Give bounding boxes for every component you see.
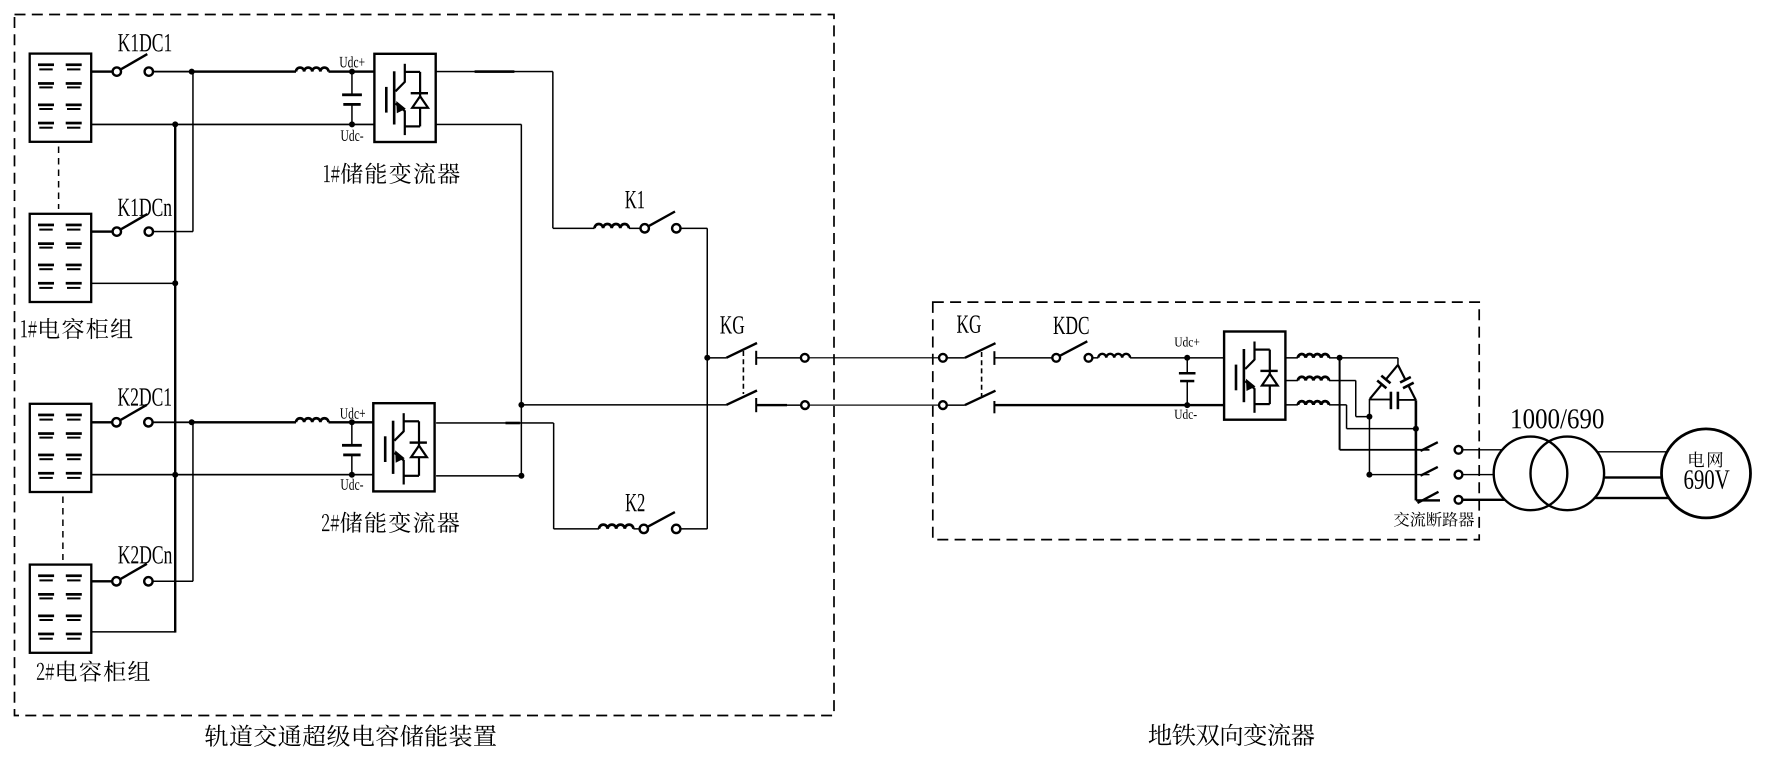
dc-link capacitor C1 bbox=[351, 72, 353, 95]
KG upper terminal bbox=[801, 354, 809, 362]
grid line 2 bbox=[1604, 476, 1662, 478]
wire bank3 to K2DC1 bbox=[91, 421, 113, 423]
negative bus wire bank3/converter2 bbox=[91, 474, 373, 476]
label 1000/690 bbox=[1512, 409, 1603, 428]
wire bank2 bottom to bus bbox=[91, 283, 175, 285]
label Udc+ U1 bbox=[340, 56, 365, 67]
dashed boundary: rail-transit supercapacitor energy storage device bbox=[15, 15, 835, 716]
wire node to L1 bbox=[192, 70, 296, 72]
pole1 feed wire bbox=[1340, 449, 1430, 451]
switch K2DC1 bbox=[112, 418, 120, 426]
Udc- node converter2 bbox=[349, 472, 355, 478]
grid 690V circle bbox=[1662, 429, 1751, 518]
KG lower pole wire bbox=[521, 404, 726, 406]
inductor LDC bbox=[1098, 354, 1130, 358]
KG gang dashed link bbox=[742, 351, 744, 394]
phase A node bbox=[1337, 355, 1343, 361]
wire K2 to vertical bbox=[680, 528, 707, 530]
dc-link capacitor C2 bbox=[351, 422, 353, 445]
pole2 feed wire bbox=[1369, 474, 1429, 475]
node delta-left/B bbox=[1366, 414, 1372, 420]
filter capacitor bottom right lead bbox=[1398, 399, 1416, 401]
delta left corner drop bbox=[1369, 399, 1371, 475]
vertical U1-/U2- link bbox=[521, 124, 523, 475]
KG lower wire to terminal bbox=[787, 404, 801, 406]
label K1 bbox=[625, 191, 644, 208]
KG2 lower blade bbox=[965, 391, 996, 405]
phase B wire to corner bbox=[1329, 380, 1356, 382]
Udc+ node converter2 bbox=[349, 419, 355, 425]
label grid voltage bbox=[1684, 470, 1729, 489]
junction negative bus / bank1 bbox=[172, 121, 178, 127]
wire node to L2 bbox=[192, 421, 296, 423]
wire K1DC1 to node bbox=[153, 71, 192, 73]
KG upper wire to terminal bbox=[756, 357, 801, 359]
filter capacitor left slant bbox=[1386, 365, 1398, 380]
label K2 bbox=[626, 494, 645, 511]
phase C wire bbox=[1285, 404, 1298, 406]
KG2 upper contact bar bbox=[993, 351, 995, 365]
dc-link capacitor C3 bbox=[1187, 358, 1189, 374]
breaker pole3 wire out bbox=[1462, 499, 1505, 501]
vertical link K1DC1-K1DCn bbox=[192, 72, 194, 232]
wire K1 to vertical bbox=[680, 228, 707, 230]
filter capacitor right slant bbox=[1398, 365, 1406, 380]
KG lower wire thick bbox=[756, 404, 787, 406]
label 2# capacitor group bbox=[37, 661, 150, 682]
phase A inductor bbox=[1298, 354, 1329, 358]
node A2 junction bbox=[189, 419, 195, 425]
wire to K2 inductor bbox=[554, 528, 599, 530]
phase B drop bbox=[1355, 381, 1357, 417]
wire U2+ down bbox=[553, 423, 555, 529]
breaker pole3 terminal bbox=[1455, 496, 1463, 504]
Udc+ node converter1 bbox=[349, 69, 355, 75]
label Udc- U1 bbox=[341, 130, 364, 141]
wire U1- out bbox=[436, 124, 522, 126]
KG upper contact bar bbox=[755, 351, 757, 365]
KG lower terminal bbox=[801, 401, 809, 409]
capacitor bank 2 (1# group, unit n) bbox=[30, 214, 91, 302]
phase C drop bbox=[1346, 405, 1348, 429]
wire to K1 inductor bbox=[553, 228, 595, 230]
inductor LK1 bbox=[595, 224, 629, 228]
switch K2DCn bbox=[112, 577, 120, 585]
converter U2 (2# energy storage converter) bbox=[373, 403, 434, 491]
filter capacitor bottom left lead bbox=[1370, 399, 1391, 401]
wire bank1 to K1DC1 bbox=[91, 70, 113, 72]
inductor LK2 bbox=[599, 525, 633, 529]
label Udc- U3 bbox=[1174, 409, 1196, 419]
KG2 lower contact bar bbox=[993, 401, 995, 413]
phase A wire to node bbox=[1329, 357, 1398, 359]
label K1DC1 bbox=[118, 34, 171, 52]
switch K1DC1 bbox=[113, 67, 121, 75]
KG lower contact bar bbox=[755, 398, 757, 412]
tie line upper bbox=[809, 357, 940, 358]
phase B jog bbox=[1356, 416, 1370, 418]
switch KDC bbox=[1052, 354, 1060, 362]
wire KDC to LDC bbox=[1092, 357, 1098, 359]
wire K2DC1 to node bbox=[152, 421, 192, 423]
wire U1+ down bbox=[552, 72, 554, 229]
phase B wire bbox=[1285, 380, 1298, 382]
KG2 upper wire bbox=[947, 357, 965, 359]
wire K1DCn to vertical bbox=[153, 231, 194, 233]
wire bank4 to K2DCn bbox=[91, 580, 113, 582]
wire LDC to Udc+ bbox=[1130, 357, 1224, 359]
label Udc- U2 bbox=[341, 479, 364, 490]
tie line lower bbox=[809, 405, 940, 406]
phase C inductor bbox=[1298, 401, 1329, 405]
wire LK2 to K2 bbox=[633, 528, 640, 530]
KG upper blade bbox=[726, 343, 757, 358]
KG2 lower terminal bbox=[939, 401, 947, 409]
Udc+ node U3 bbox=[1184, 355, 1190, 361]
KG2 upper wire out bbox=[994, 357, 1052, 359]
label grid name bbox=[1689, 452, 1722, 468]
node delta-right/C bbox=[1413, 426, 1419, 432]
dashed continuation between 1# banks bbox=[58, 147, 60, 210]
dashed boundary: metro bidirectional converter bbox=[933, 302, 1479, 539]
node A1 junction bbox=[189, 69, 195, 75]
dashed continuation between 2# banks bbox=[62, 497, 64, 561]
title right box bbox=[1149, 723, 1315, 746]
capacitor bank 4 (2# group, unit n) bbox=[30, 565, 92, 653]
breaker pole2 wire out bbox=[1462, 474, 1493, 475]
Udc- node converter1 bbox=[349, 121, 355, 127]
junction U2- tie bbox=[518, 473, 524, 479]
switch K2 bbox=[640, 525, 648, 533]
wire bank2 to K1DCn bbox=[91, 230, 113, 232]
capacitor bank 3 (2# group, unit 1) bbox=[30, 404, 92, 492]
label 1# capacitor group bbox=[21, 318, 132, 339]
label AC breaker bbox=[1394, 512, 1474, 527]
wire L1 to Udc+ node bbox=[329, 70, 375, 72]
label KDC bbox=[1054, 317, 1089, 335]
label 1# converter bbox=[324, 163, 460, 184]
junction negative bus / bank3 bbox=[172, 472, 178, 478]
converter U1 (1# energy storage converter) bbox=[374, 54, 435, 142]
KG lower blade bbox=[726, 391, 757, 405]
breaker pole3 blade bbox=[1418, 492, 1439, 503]
switch K1 bbox=[641, 224, 649, 232]
wire U2+ out bbox=[436, 422, 553, 424]
label 2# converter bbox=[322, 512, 459, 533]
KG2 upper blade bbox=[965, 343, 996, 358]
wire L2 to Udc+ node bbox=[329, 421, 374, 423]
breaker pole1 blade bbox=[1421, 442, 1438, 451]
label K1DCn bbox=[118, 199, 172, 217]
KG2 lower wire thick bbox=[994, 404, 1224, 406]
label K2DCn bbox=[118, 546, 172, 564]
label K2DC1 bbox=[118, 388, 171, 406]
vertical link K2DC1-K2DCn bbox=[192, 422, 194, 581]
KG upper pole wire bbox=[707, 357, 726, 359]
phase B inductor bbox=[1298, 377, 1329, 381]
label Udc+ U3 bbox=[1175, 337, 1200, 347]
phase A wire bbox=[1285, 357, 1298, 359]
Udc- node U3 bbox=[1184, 402, 1190, 408]
breaker pole1 terminal bbox=[1455, 446, 1463, 454]
breaker pole2 terminal bbox=[1455, 471, 1463, 479]
delta right corner drop thick bbox=[1415, 400, 1418, 500]
wire bank4 bottom to bus bbox=[91, 631, 175, 633]
grid line 1 bbox=[1597, 451, 1667, 452]
filter capacitor bottom plates bbox=[1390, 392, 1393, 410]
vertical K1-K2 bus bbox=[707, 228, 709, 529]
transformer secondary circle bbox=[1531, 437, 1605, 511]
KG2 gang dashed link bbox=[981, 352, 983, 396]
wire LK1 to K1 bbox=[629, 228, 641, 230]
phase C wire to corner bbox=[1329, 404, 1347, 406]
inductor L1 bbox=[296, 68, 328, 72]
breaker pole1 wire out bbox=[1462, 449, 1502, 450]
converter U3 (bidirectional) bbox=[1224, 332, 1285, 420]
transformer primary circle bbox=[1494, 437, 1568, 511]
label KG right bbox=[957, 315, 981, 333]
delta apex drop bbox=[1397, 358, 1399, 365]
wire U1+ out bbox=[436, 71, 553, 73]
KG2 upper terminal bbox=[939, 354, 947, 362]
phase A drop bbox=[1339, 358, 1341, 450]
inductor L2 bbox=[296, 418, 328, 422]
KG2 lower wire bbox=[947, 404, 965, 406]
breaker pole3 stub bbox=[1416, 499, 1440, 501]
phase C jog bbox=[1347, 428, 1416, 430]
wire U2- out bbox=[436, 475, 521, 477]
capacitor bank 1 (1# group, unit 1) bbox=[30, 54, 91, 142]
label Udc+ U2 bbox=[340, 408, 365, 419]
thick negative bus vertical bbox=[174, 124, 176, 632]
node pole2 feed bbox=[1366, 472, 1372, 478]
junction KG lower feed bbox=[518, 402, 524, 408]
title left box bbox=[205, 724, 496, 746]
breaker pole2 blade bbox=[1421, 467, 1438, 476]
switch K1DCn bbox=[113, 227, 121, 235]
grid line 3 bbox=[1595, 497, 1669, 499]
label KG left bbox=[720, 316, 744, 334]
junction KG upper feed bbox=[704, 355, 710, 361]
junction bus/bank2 bbox=[172, 280, 178, 286]
wire K2DCn to vertical bbox=[152, 581, 193, 583]
negative bus wire bank1/converter1 bbox=[91, 124, 374, 126]
